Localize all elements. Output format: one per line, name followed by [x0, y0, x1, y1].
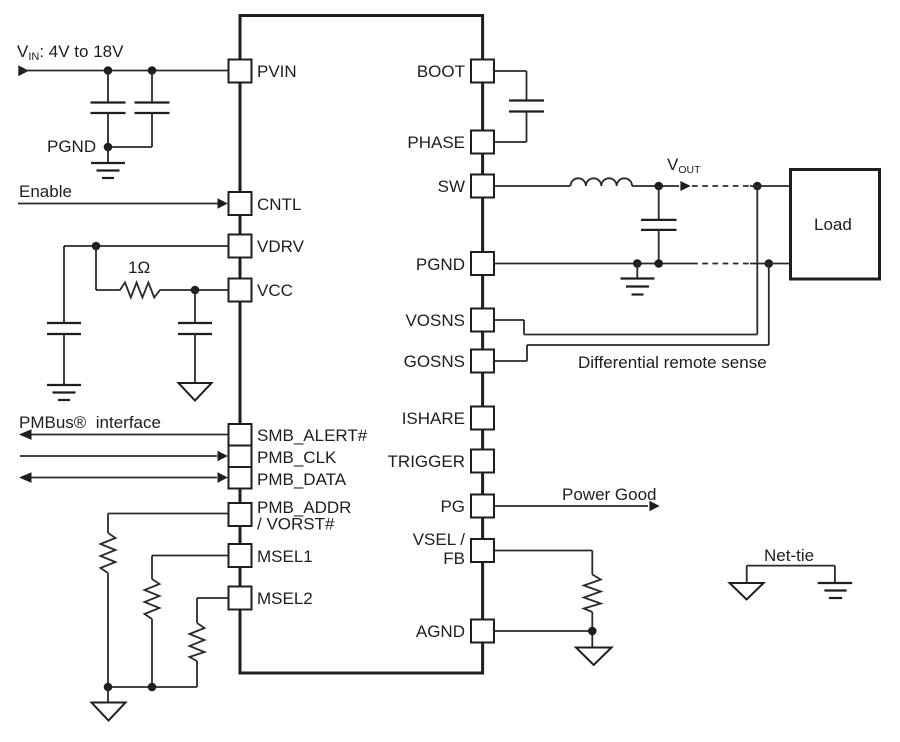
wire VIN to PVIN — [19, 70, 229, 72]
wire net-tie — [747, 566, 835, 583]
pin VCC — [229, 279, 293, 302]
junction VDRV branch — [92, 242, 101, 251]
svg-text:PGND: PGND — [47, 137, 96, 156]
wire R4 to ground bus — [196, 661, 198, 687]
wire inductor to VOUT node — [632, 185, 679, 187]
svg-text:ISHARE: ISHARE — [402, 409, 465, 428]
wire to Load bottom — [750, 263, 790, 265]
wire R2 to ground bus — [107, 573, 109, 687]
wire BOOT to bootstrap cap — [494, 71, 527, 101]
svg-text:PHASE: PHASE — [407, 133, 465, 152]
junction AGND node — [588, 627, 597, 636]
wire SW to inductor — [494, 185, 571, 187]
svg-text:Differential remote sense: Differential remote sense — [578, 353, 767, 372]
pin TRIGGER — [388, 450, 494, 473]
wire PG Power Good — [494, 485, 660, 511]
wire MSEL1 to R3 — [152, 556, 229, 580]
wire SMB_ALERT# (arrow out left) — [19, 429, 229, 440]
pin MSEL1 — [229, 544, 313, 567]
capacitor C5 (bootstrap) — [509, 101, 544, 112]
svg-text:VOSNS: VOSNS — [405, 311, 465, 330]
pin PMB_ADDR / VORST# — [229, 498, 352, 534]
svg-text:/ VORST#: / VORST# — [257, 515, 335, 534]
pin PG — [440, 495, 494, 518]
junction input cap 1 — [104, 66, 113, 75]
wire VDRV branch down to resistor — [95, 246, 97, 290]
ground output (earth) — [621, 264, 655, 295]
svg-text:VDRV: VDRV — [257, 237, 305, 256]
svg-text:GOSNS: GOSNS — [404, 352, 465, 371]
junction input cap 2 — [148, 66, 157, 75]
wire C2 bottom to PGND node — [108, 146, 152, 148]
IC body U1 — [240, 16, 483, 674]
pin SMB_ALERT# — [229, 424, 368, 446]
inductor L1 — [571, 178, 633, 186]
net label VIN — [17, 42, 124, 63]
wire AGND — [494, 630, 592, 632]
wire dashed PGND to load — [692, 263, 750, 265]
Load box — [791, 170, 880, 280]
pin PMB_DATA — [229, 467, 347, 489]
svg-text:CNTL: CNTL — [257, 195, 301, 214]
svg-text:PVIN: PVIN — [257, 62, 297, 81]
svg-text:AGND: AGND — [416, 622, 465, 641]
svg-text:Power Good: Power Good — [562, 485, 657, 504]
wire to Load top — [750, 185, 790, 187]
ground net-tie right (earth) — [818, 583, 852, 598]
resistor R1 value 1 ohm — [96, 258, 195, 298]
wire dashed VOUT to load — [692, 185, 750, 187]
svg-text:PMB_CLK: PMB_CLK — [257, 448, 337, 467]
capacitor C4 (VCC) — [178, 290, 212, 383]
pin CNTL — [229, 192, 302, 215]
pin ISHARE — [402, 407, 494, 430]
junction PGND node — [104, 143, 113, 152]
pin VOSNS — [405, 309, 494, 332]
resistor R4 — [190, 623, 205, 661]
ground C4 (triangle) — [179, 383, 212, 401]
ground PGND (earth) — [91, 147, 125, 178]
wire MSEL2 to R4 — [197, 598, 229, 623]
capacitor C2 — [135, 71, 170, 148]
svg-text:TRIGGER: TRIGGER — [388, 452, 465, 471]
svg-text:FB: FB — [443, 549, 465, 568]
wire VOSNS remote sense — [494, 186, 757, 335]
wire ground bus — [108, 686, 197, 688]
ground AGND (triangle) — [576, 648, 612, 666]
svg-text:Enable: Enable — [19, 182, 72, 201]
resistor R2 — [101, 533, 116, 573]
net label VOUT — [667, 155, 701, 176]
svg-text:VIN: 4V to 18V: VIN: 4V to 18V — [17, 42, 124, 63]
resistor R5 (feedback) — [584, 575, 601, 613]
pin SW — [438, 175, 494, 198]
wire R3 to ground bus — [151, 619, 153, 687]
pin AGND — [416, 620, 494, 643]
svg-text:VSEL /: VSEL / — [413, 530, 466, 549]
svg-text:MSEL2: MSEL2 — [257, 589, 313, 608]
capacitor C6 (output) — [641, 186, 677, 264]
wire Enable to CNTL — [18, 203, 218, 205]
arrowhead VOUT — [680, 181, 690, 191]
pin BOOT — [417, 60, 494, 83]
capacitor C1 — [91, 71, 126, 148]
junction load VOUT — [753, 182, 762, 191]
junction load ground — [765, 259, 774, 268]
svg-text:BOOT: BOOT — [417, 62, 465, 81]
wire GOSNS remote sense — [494, 264, 769, 362]
junction VCC cap — [191, 286, 200, 295]
svg-text:VCC: VCC — [257, 281, 293, 300]
wire VSEL/FB to R5 — [494, 551, 592, 575]
ground net-tie left (triangle) — [730, 583, 764, 600]
wire R5 to AGND node — [591, 612, 593, 647]
ground C3 (earth) — [47, 385, 81, 400]
junction ground bus 2 — [148, 683, 157, 692]
capacitor C3 (VDRV) — [47, 323, 81, 384]
junction VOUT node — [654, 182, 663, 191]
svg-text:PG: PG — [440, 497, 465, 516]
pin MSEL2 — [229, 587, 313, 610]
pin GOSNS — [404, 350, 494, 373]
wire PMB_DATA (double arrow) — [19, 472, 228, 483]
svg-text:Net-tie: Net-tie — [764, 546, 814, 565]
wire PGND to output ground — [494, 263, 692, 265]
svg-text:PMB_DATA: PMB_DATA — [257, 470, 347, 489]
pin PGND — [416, 252, 494, 275]
svg-text:VOUT: VOUT — [667, 155, 701, 176]
net label Enable — [19, 182, 72, 201]
net label Net-tie — [764, 546, 814, 565]
pin VSEL / FB — [413, 530, 494, 568]
net label Differential remote sense — [578, 353, 767, 372]
arrowhead into CNTL — [218, 198, 228, 209]
input arrowhead VIN — [18, 65, 29, 76]
wire bootstrap cap to PHASE — [494, 112, 527, 143]
wire PMB_ADDR to R2 — [108, 514, 229, 534]
resistor R3 — [145, 579, 160, 619]
svg-text:Load: Load — [814, 215, 852, 234]
net label PGND — [47, 137, 96, 156]
wire VDRV — [64, 246, 229, 323]
pin PHASE — [407, 131, 494, 154]
junction ground bus 1 — [104, 683, 113, 692]
junction C6 bottom — [654, 259, 663, 268]
net label PMBus interface — [19, 413, 161, 432]
ground bus (triangle) — [92, 687, 126, 721]
pin VDRV — [229, 235, 305, 258]
svg-text:SMB_ALERT#: SMB_ALERT# — [257, 426, 368, 445]
svg-text:MSEL1: MSEL1 — [257, 547, 313, 566]
svg-text:SW: SW — [438, 177, 465, 196]
junction PGND earth — [633, 259, 642, 268]
wire PMB_CLK (arrow in right) — [20, 451, 228, 462]
svg-text:PGND: PGND — [416, 255, 465, 274]
pin PVIN — [229, 60, 297, 83]
pin PMB_CLK — [229, 446, 338, 468]
wire R1 to VCC — [195, 289, 229, 291]
svg-text:PMBus® interface: PMBus® interface — [19, 413, 161, 432]
svg-text:1Ω: 1Ω — [128, 258, 150, 277]
